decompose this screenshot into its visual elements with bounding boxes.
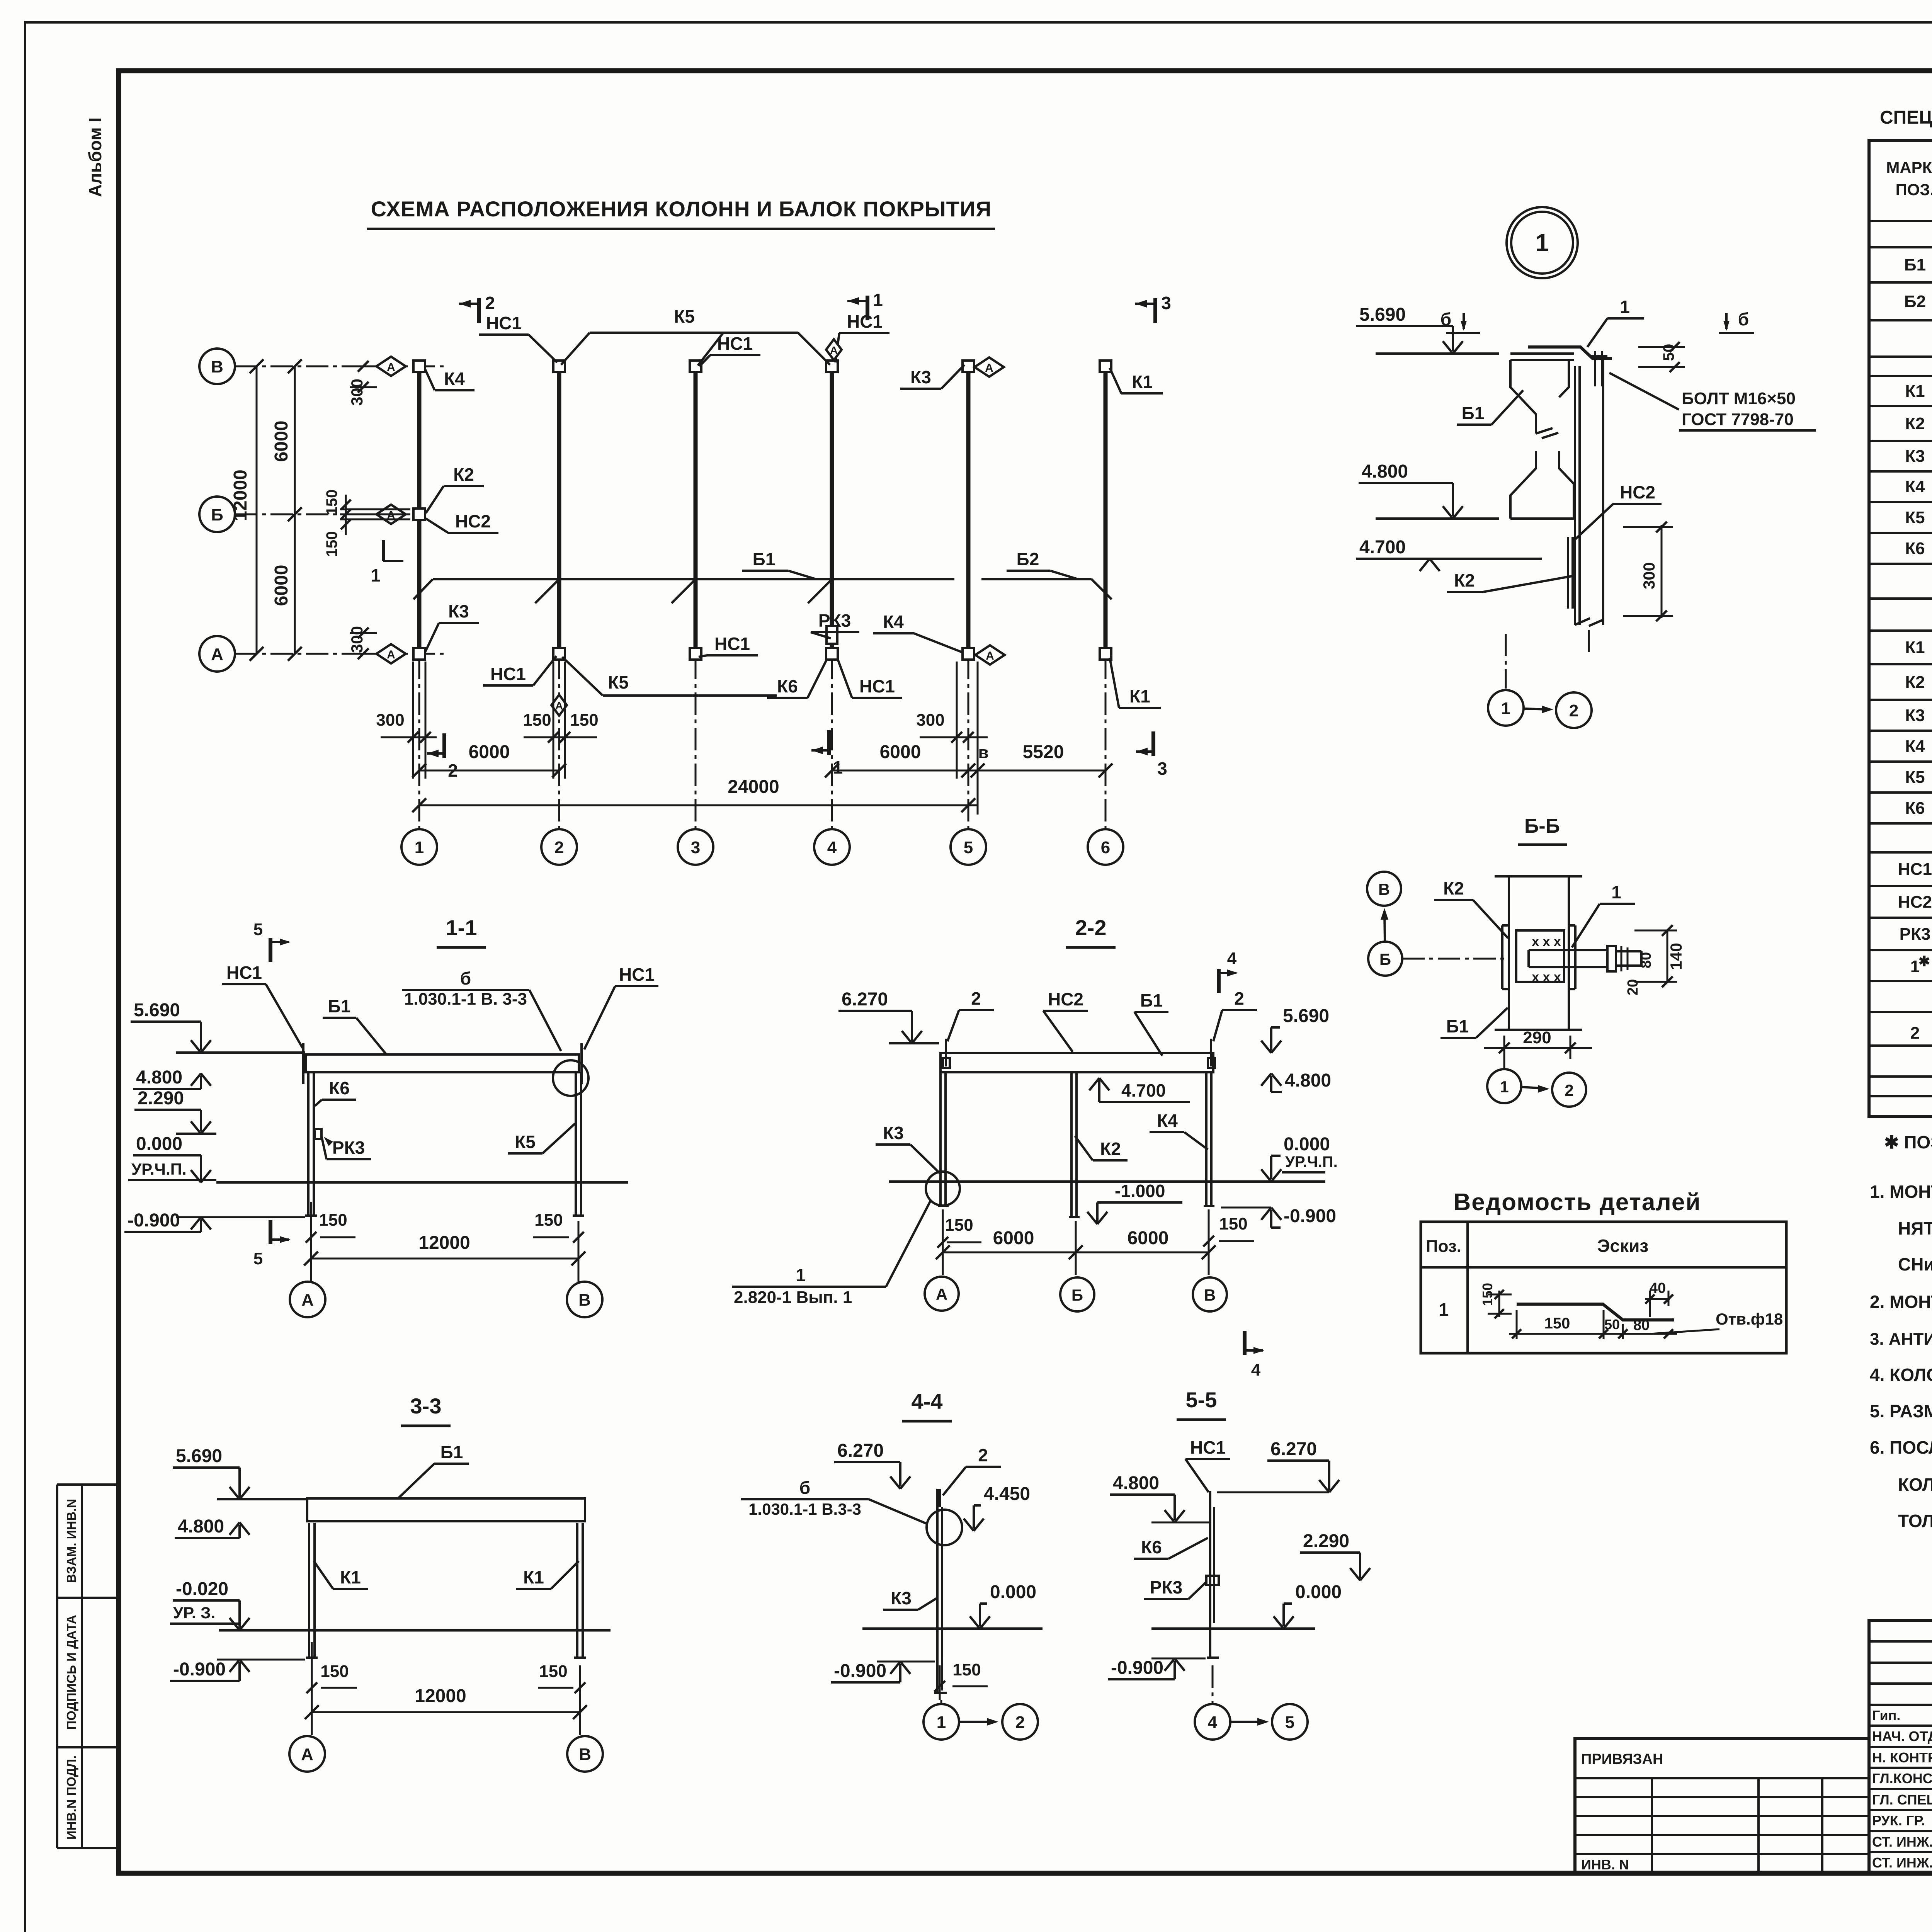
- svg-text:МАРКА: МАРКА: [1886, 158, 1932, 177]
- Б-Б dim 140: [1667, 930, 1668, 982]
- svg-text:3: 3: [1157, 759, 1167, 779]
- svg-text:300: 300: [376, 711, 404, 730]
- svg-text:150: 150: [319, 1211, 347, 1230]
- svg-text:К1: К1: [1132, 372, 1153, 392]
- 5-5 axis circles: [1212, 1665, 1214, 1704]
- svg-text:150: 150: [1219, 1214, 1247, 1233]
- beam line Б2: [981, 578, 1092, 580]
- svg-text:4. КОЛОННЫ МОНТИРОВАТЬ МАРК: 4. КОЛОННЫ МОНТИРОВАТЬ МАРКИРОВОЧНЫМ ЗНА…: [1870, 1365, 1932, 1385]
- marking diamond above col4: [826, 339, 842, 360]
- top nozzle chain K5: [590, 332, 798, 334]
- svg-text:Эскиз: Эскиз: [1597, 1236, 1648, 1256]
- detail 1 axis to view circles: [1505, 634, 1507, 689]
- svg-text:К5: К5: [1905, 768, 1925, 787]
- 5-5 ground line: [1151, 1628, 1315, 1630]
- 1-1 weld circle: [553, 1060, 588, 1096]
- svg-text:150: 150: [323, 531, 340, 557]
- svg-text:5. РАЗМЕР „в” СМ. ЧЕРТЕЖ: 5. РАЗМЕР „в” СМ. ЧЕРТЕЖ АР: [1870, 1401, 1932, 1421]
- svg-text:Б1: Б1: [1904, 255, 1926, 274]
- svg-text:К3: К3: [910, 367, 931, 387]
- bottom nozzle chain K5: [603, 694, 777, 697]
- svg-text:4.800: 4.800: [1362, 461, 1408, 482]
- svg-text:4.700: 4.700: [1121, 1080, 1166, 1100]
- svg-text:К5: К5: [674, 306, 695, 327]
- svg-text:5520: 5520: [1023, 742, 1064, 762]
- svg-text:-0.020: -0.020: [176, 1579, 228, 1599]
- svg-text:2: 2: [978, 1445, 988, 1465]
- vertical dims 6000/6000: [294, 366, 296, 654]
- svg-text:ГЛ. СПЕЦ: ГЛ. СПЕЦ: [1872, 1792, 1932, 1808]
- svg-text:2-2: 2-2: [1075, 915, 1107, 940]
- row axis circle Б: [199, 497, 235, 532]
- svg-text:Б1: Б1: [1446, 1016, 1469, 1036]
- svg-text:2: 2: [485, 293, 495, 313]
- svg-text:ВЗАМ. ИНВ.N: ВЗАМ. ИНВ.N: [64, 1499, 78, 1583]
- svg-text:5: 5: [1285, 1713, 1294, 1732]
- svg-text:СПЕЦИФИКАЦИЯ К СХЕМЕ РАСПОЛО: СПЕЦИФИКАЦИЯ К СХЕМЕ РАСПОЛОЖЕНИЯ КОЛОН …: [1880, 107, 1932, 128]
- Б-Б axis circle Б: [1368, 942, 1402, 976]
- svg-text:К1: К1: [1905, 638, 1925, 657]
- svg-text:4.800: 4.800: [178, 1516, 224, 1537]
- svg-text:4: 4: [1227, 949, 1237, 968]
- svg-text:2: 2: [971, 988, 981, 1009]
- svg-text:Поз.: Поз.: [1426, 1237, 1461, 1256]
- svg-text:1: 1: [937, 1713, 946, 1732]
- svg-text:40: 40: [1650, 1280, 1666, 1296]
- svg-text:4.800: 4.800: [136, 1067, 182, 1088]
- svg-text:x x x: x x x: [1532, 970, 1561, 985]
- marking diamond col5 bottom: [975, 645, 1005, 665]
- svg-text:К3: К3: [448, 601, 469, 621]
- svg-text:4.800: 4.800: [1113, 1473, 1159, 1493]
- 1-1 section flag 5 bottom: [269, 1220, 272, 1244]
- 1-1 left column: [307, 1072, 310, 1216]
- svg-text:1: 1: [1500, 1078, 1509, 1096]
- detail 1 column K2: [1574, 366, 1576, 625]
- Б-Б column body: [1508, 876, 1510, 1030]
- Б-Б dim 290: [1503, 1036, 1505, 1059]
- svg-text:0.000: 0.000: [990, 1582, 1036, 1602]
- section flag 3 top: [1153, 298, 1157, 323]
- 4-4 axis circles: [940, 1700, 942, 1704]
- svg-text:КОЛОННАМ ПО ВСЕЙ ДЛИНЕ И: КОЛОННАМ ПО ВСЕЙ ДЛИНЕ И ШИРИНЕ ЗАКЛАДНЫ…: [1898, 1475, 1932, 1495]
- 5-5 console РК3: [1206, 1576, 1219, 1585]
- 3-3 beam: [307, 1498, 585, 1521]
- svg-text:А: А: [986, 650, 994, 662]
- Б-Б view circles 1-2: [1487, 1069, 1521, 1103]
- svg-text:6000: 6000: [271, 421, 292, 462]
- svg-text:Отв.ф18: Отв.ф18: [1716, 1310, 1783, 1328]
- svg-text:5.690: 5.690: [176, 1446, 222, 1466]
- svg-text:Б1: Б1: [440, 1442, 463, 1462]
- svg-text:К1: К1: [1129, 686, 1150, 706]
- svg-text:А: А: [985, 362, 993, 374]
- svg-text:300: 300: [916, 711, 944, 730]
- svg-text:Ведомость деталей: Ведомость деталей: [1454, 1189, 1701, 1216]
- detail 1 bent plate pos.1: [1528, 347, 1612, 359]
- svg-text:А: А: [555, 700, 563, 712]
- svg-text:1: 1: [796, 1265, 806, 1285]
- 5-5 column: [1209, 1491, 1211, 1658]
- Б-Б bolt and nut: [1607, 946, 1616, 971]
- svg-text:б: б: [1738, 309, 1749, 329]
- parts list table: [1421, 1222, 1786, 1353]
- bottom extension lines: [412, 662, 414, 779]
- svg-text:3: 3: [1161, 293, 1171, 313]
- svg-text:4: 4: [1251, 1361, 1261, 1379]
- svg-text:РК3: РК3: [332, 1138, 365, 1158]
- svg-text:НС2: НС2: [1048, 989, 1083, 1009]
- svg-text:5.690: 5.690: [134, 1000, 180, 1020]
- svg-text:1: 1: [371, 565, 381, 585]
- svg-text:300: 300: [348, 379, 366, 406]
- svg-text:Гип.: Гип.: [1872, 1708, 1900, 1723]
- svg-text:К4: К4: [1905, 737, 1925, 756]
- svg-text:ИНВ. N: ИНВ. N: [1581, 1857, 1629, 1872]
- Б-Б embedded plate pos.1: [1529, 949, 1607, 951]
- dim line 6000 col1-col2: [419, 770, 559, 772]
- svg-text:ПОЗ.: ПОЗ.: [1896, 180, 1932, 199]
- svg-text:5: 5: [964, 838, 973, 857]
- svg-text:К1: К1: [523, 1567, 544, 1587]
- svg-text:А: А: [301, 1291, 314, 1310]
- dim line 24000: [419, 804, 978, 806]
- svg-text:6000: 6000: [271, 565, 292, 606]
- svg-text:Б: Б: [1379, 950, 1391, 968]
- 3-3 dim 12000: [312, 1711, 580, 1713]
- svg-text:-0.900: -0.900: [128, 1210, 180, 1231]
- svg-text:6000: 6000: [1128, 1228, 1169, 1248]
- svg-text:А: А: [211, 645, 223, 664]
- 4-4 weld circle: [927, 1510, 962, 1545]
- svg-text:НС2: НС2: [455, 511, 491, 531]
- svg-text:4: 4: [827, 838, 837, 857]
- svg-text:2. МОНТАЖНУЮ СВАРКУ ВЫПОЛНЯ: 2. МОНТАЖНУЮ СВАРКУ ВЫПОЛНЯТЬ ЭЛЕКТРОДАМ…: [1870, 1292, 1932, 1312]
- svg-text:6. ПОСЛЕ ОКОНЧАТЕЛЬНОЙ ВЫВЕ: 6. ПОСЛЕ ОКОНЧАТЕЛЬНОЙ ВЫВЕРКИ БАЛКИ ПОК…: [1870, 1437, 1932, 1458]
- svg-text:6000: 6000: [993, 1228, 1034, 1248]
- svg-text:1: 1: [415, 838, 424, 857]
- parts list sketch: [1517, 1304, 1674, 1320]
- svg-text:К2: К2: [1905, 414, 1925, 433]
- svg-text:ПОДПИСЬ И ДАТА: ПОДПИСЬ И ДАТА: [64, 1615, 78, 1730]
- svg-text:А: А: [387, 361, 395, 374]
- svg-text:1: 1: [1611, 882, 1621, 902]
- svg-text:УР. З.: УР. З.: [173, 1604, 215, 1622]
- svg-text:б: б: [460, 968, 471, 988]
- svg-text:БОЛТ М16×50: БОЛТ М16×50: [1682, 389, 1796, 408]
- detail 1 beam Б1 profile: [1510, 352, 1574, 355]
- svg-text:-0.900: -0.900: [834, 1661, 886, 1681]
- svg-text:300: 300: [1640, 562, 1658, 589]
- 2-2 beam: [940, 1053, 1213, 1072]
- 2-2 column Б: [1070, 1072, 1073, 1217]
- 2-2 section flag 4 bottom: [1243, 1331, 1247, 1355]
- 2-2 nozzle stubs: [945, 1039, 947, 1066]
- svg-text:В: В: [211, 357, 223, 376]
- svg-text:РК3: РК3: [1150, 1577, 1182, 1597]
- svg-text:1: 1: [873, 290, 883, 310]
- svg-text:ПРИВЯЗАН: ПРИВЯЗАН: [1581, 1751, 1663, 1767]
- Б-Б beam cross-section: [1516, 930, 1564, 982]
- svg-text:Б-Б: Б-Б: [1524, 815, 1560, 837]
- svg-text:5.690: 5.690: [1283, 1006, 1329, 1026]
- row axis circle В: [199, 349, 235, 384]
- svg-text:-1.000: -1.000: [1115, 1181, 1165, 1201]
- Б-Б axis line: [1402, 958, 1507, 960]
- svg-text:К3: К3: [891, 1588, 912, 1608]
- НС2 connection lines at col1-Б: [340, 509, 410, 510]
- svg-text:4-4: 4-4: [912, 1389, 943, 1413]
- svg-text:5.690: 5.690: [1359, 304, 1406, 325]
- svg-text:НС1: НС1: [486, 313, 522, 333]
- svg-text:Б1: Б1: [328, 996, 351, 1016]
- 1-1 right column: [575, 1072, 577, 1216]
- svg-text:В: В: [578, 1291, 591, 1310]
- 1-1 section flag 5 top: [269, 938, 272, 962]
- marking diamond below col2: [551, 695, 567, 716]
- Б-Б side plates: [1501, 925, 1503, 989]
- svg-text:6.270: 6.270: [842, 989, 888, 1010]
- 1-1 ground line: [216, 1181, 628, 1184]
- svg-text:Б2: Б2: [1904, 292, 1926, 311]
- svg-text:3. АНТИКОРРОЗИЙНУЮ ЗАЩИТУ З: 3. АНТИКОРРОЗИЙНУЮ ЗАЩИТУ ЗАКЛАДНЫХ ДЕТА…: [1870, 1329, 1932, 1349]
- spec table grid: [1869, 140, 1932, 1117]
- svg-text:24000: 24000: [728, 777, 779, 797]
- svg-text:К1: К1: [1905, 382, 1925, 401]
- svg-text:20: 20: [1625, 979, 1641, 995]
- 2-2 ground line: [889, 1180, 1325, 1183]
- svg-text:К6: К6: [329, 1078, 350, 1098]
- 2-2 section flag 4 top: [1217, 969, 1221, 993]
- svg-text:300: 300: [348, 626, 366, 653]
- svg-text:К4: К4: [444, 369, 465, 389]
- svg-text:1: 1: [1501, 699, 1510, 718]
- 1-1 right nozzle plate: [580, 1043, 583, 1084]
- marking diamonds col1: [376, 357, 406, 376]
- svg-text:НС1: НС1: [1898, 860, 1932, 879]
- svg-text:290: 290: [1523, 1028, 1551, 1047]
- svg-text:150: 150: [323, 490, 340, 515]
- svg-text:1: 1: [1439, 1299, 1449, 1320]
- marking diamond col5 top: [975, 357, 1004, 377]
- svg-text:СТ. ИНЖ.: СТ. ИНЖ.: [1872, 1834, 1932, 1850]
- svg-text:2: 2: [1565, 1081, 1573, 1099]
- title block left attach table: [1575, 1738, 1869, 1873]
- svg-text:150: 150: [534, 1211, 563, 1230]
- svg-text:В: В: [1378, 880, 1390, 898]
- detail view circles 1-2: [1488, 690, 1524, 726]
- title block signature table: [1869, 1621, 1932, 1873]
- svg-text:Б1: Б1: [753, 549, 776, 569]
- svg-text:СТ. ИНЖ.: СТ. ИНЖ.: [1872, 1855, 1932, 1871]
- svg-text:0.000: 0.000: [1284, 1134, 1330, 1155]
- svg-text:УР.Ч.П.: УР.Ч.П.: [131, 1160, 187, 1178]
- column axis extension lines: [418, 657, 420, 829]
- left margin attribute boxes: [56, 1485, 58, 1848]
- svg-text:К6: К6: [1905, 799, 1925, 818]
- svg-text:2: 2: [554, 838, 564, 857]
- svg-text:3: 3: [691, 838, 700, 857]
- 3-3 columns: [308, 1523, 310, 1658]
- svg-text:СНиП Ш-16-80, А ТАКЖЕ ЧЕРТЕЖА: СНиП Ш-16-80, А ТАКЖЕ ЧЕРТЕЖАМИ НАСТОЯЩЕ…: [1898, 1254, 1932, 1274]
- svg-text:80: 80: [1638, 952, 1654, 968]
- 3-3 ground line: [219, 1629, 611, 1632]
- column axis circles 1-6: [401, 829, 437, 865]
- svg-text:НС1: НС1: [490, 664, 526, 684]
- svg-text:К5: К5: [1905, 508, 1925, 527]
- svg-text:-0.900: -0.900: [1284, 1206, 1336, 1226]
- svg-text:К4: К4: [1157, 1111, 1178, 1131]
- 2-2 column А: [939, 1072, 942, 1206]
- svg-text:К3: К3: [1905, 706, 1925, 725]
- 2-2 column В: [1205, 1072, 1207, 1206]
- svg-text:2: 2: [1015, 1713, 1025, 1732]
- svg-text:✱ ПОЗИЦИЮ 1 -СМ. ВЕДОМОСТЬ ДЕ: ✱ ПОЗИЦИЮ 1 -СМ. ВЕДОМОСТЬ ДЕТАЛЕЙ.: [1884, 1132, 1932, 1152]
- svg-text:УР.Ч.П.: УР.Ч.П.: [1285, 1153, 1338, 1170]
- svg-text:5: 5: [253, 1249, 263, 1268]
- 1-1 beam: [306, 1054, 579, 1072]
- svg-text:НС1: НС1: [714, 634, 750, 654]
- row axis circle А: [199, 636, 235, 672]
- svg-text:2.290: 2.290: [1303, 1531, 1349, 1551]
- svg-text:К2: К2: [453, 464, 474, 485]
- beam line Б1: [433, 578, 954, 580]
- svg-text:6.270: 6.270: [1270, 1439, 1317, 1459]
- svg-text:-0.900: -0.900: [173, 1659, 226, 1680]
- svg-text:150: 150: [952, 1660, 981, 1679]
- svg-text:К6: К6: [1141, 1537, 1162, 1557]
- svg-text:✱: ✱: [1918, 953, 1930, 969]
- svg-text:К2: К2: [1905, 673, 1925, 692]
- svg-text:б: б: [1440, 309, 1451, 329]
- svg-text:1.030.1-1 В.3-3: 1.030.1-1 В.3-3: [748, 1500, 861, 1518]
- svg-text:4.450: 4.450: [984, 1484, 1030, 1504]
- svg-text:Б: Б: [211, 505, 223, 524]
- svg-text:12000: 12000: [415, 1686, 466, 1706]
- svg-text:2: 2: [1234, 988, 1244, 1009]
- svg-text:НАЧ. ОТД.: НАЧ. ОТД.: [1872, 1728, 1932, 1744]
- 3-3 axis circles: [311, 1724, 313, 1735]
- svg-text:В: В: [1204, 1286, 1216, 1304]
- svg-text:А: А: [387, 648, 395, 661]
- section flag 2 top: [477, 298, 481, 323]
- svg-text:0.000: 0.000: [1295, 1582, 1342, 1602]
- detail 1 column break: [1575, 618, 1590, 625]
- svg-text:К2: К2: [1100, 1139, 1121, 1159]
- svg-text:1-1: 1-1: [446, 915, 477, 940]
- svg-text:-0.900: -0.900: [1111, 1658, 1163, 1678]
- svg-text:К5: К5: [515, 1132, 536, 1152]
- svg-text:НС1: НС1: [1190, 1437, 1226, 1458]
- svg-text:НЯТЬ В СООТВЕТСТВИИ С УКАЗ: НЯТЬ В СООТВЕТСТВИИ С УКАЗАНИЯМИ СЕРИЙ 1…: [1898, 1218, 1932, 1238]
- svg-text:1: 1: [1535, 229, 1549, 257]
- svg-text:К6: К6: [777, 676, 798, 696]
- svg-text:А: А: [301, 1745, 313, 1764]
- svg-text:К4: К4: [1905, 477, 1925, 496]
- svg-text:РК3: РК3: [1900, 925, 1931, 944]
- Б-Б axis circle В: [1367, 872, 1401, 906]
- svg-text:150: 150: [945, 1216, 973, 1235]
- svg-text:150: 150: [570, 711, 598, 730]
- svg-text:б: б: [799, 1478, 810, 1498]
- svg-text:5: 5: [253, 920, 263, 939]
- section flag 3 bottom: [1151, 731, 1155, 756]
- svg-text:в: в: [978, 743, 988, 762]
- beam support ticks: [535, 581, 558, 603]
- svg-text:1.030.1-1 В. 3-3: 1.030.1-1 В. 3-3: [404, 990, 527, 1009]
- svg-text:СХЕМА РАСПОЛОЖЕНИЯ КОЛОНН И БА: СХЕМА РАСПОЛОЖЕНИЯ КОЛОНН И БАЛОК ПОКРЫТ…: [371, 197, 992, 221]
- svg-text:К2: К2: [1454, 570, 1475, 590]
- column node squares: [413, 361, 425, 372]
- svg-text:К3: К3: [883, 1123, 904, 1143]
- row axis lines: [235, 366, 444, 367]
- svg-text:НС1: НС1: [226, 963, 262, 983]
- 1-1 dim 12000: [311, 1258, 578, 1260]
- svg-text:5-5: 5-5: [1186, 1388, 1217, 1412]
- svg-text:НС1: НС1: [859, 676, 895, 696]
- svg-text:К6: К6: [1905, 539, 1925, 558]
- svg-text:3-3: 3-3: [410, 1394, 442, 1418]
- svg-text:Н. КОНТР.: Н. КОНТР.: [1872, 1750, 1932, 1765]
- svg-text:ГЛ.КОНСТ.: ГЛ.КОНСТ.: [1872, 1770, 1932, 1786]
- svg-text:150: 150: [320, 1662, 349, 1681]
- svg-text:А: А: [936, 1285, 947, 1303]
- svg-text:Б1: Б1: [1140, 990, 1163, 1010]
- 2-2 axis circles: [942, 1265, 944, 1275]
- svg-text:4: 4: [1208, 1713, 1218, 1732]
- 1-1 axis circles: [310, 1271, 312, 1282]
- svg-text:6000: 6000: [469, 742, 510, 762]
- 2-2 weld circle: [926, 1172, 960, 1206]
- 4-4 ground line: [862, 1628, 1043, 1630]
- dim 300 detail: [1661, 525, 1663, 618]
- section flag 1 top: [866, 296, 869, 320]
- 3-3 left elevation line: [217, 1498, 307, 1500]
- svg-text:2.820-1 Вып. 1: 2.820-1 Вып. 1: [734, 1288, 852, 1307]
- svg-text:150: 150: [539, 1662, 567, 1681]
- svg-text:x x x: x x x: [1532, 934, 1561, 949]
- svg-text:6.270: 6.270: [837, 1440, 884, 1461]
- svg-text:НС1: НС1: [847, 311, 883, 332]
- svg-text:А: А: [830, 344, 838, 356]
- svg-text:ТОЛЩИНЕ ЗАКЛАДНОЙ ДЕТАЛИ БА: ТОЛЩИНЕ ЗАКЛАДНОЙ ДЕТАЛИ БАЛКИ.: [1898, 1511, 1932, 1531]
- svg-text:К3: К3: [1905, 447, 1925, 466]
- svg-text:Б: Б: [1071, 1286, 1083, 1304]
- svg-text:Б1: Б1: [1462, 403, 1485, 423]
- svg-text:Б2: Б2: [1017, 549, 1039, 569]
- columns (plan): [417, 368, 422, 652]
- svg-text:6000: 6000: [880, 742, 921, 762]
- svg-text:2.290: 2.290: [138, 1088, 184, 1109]
- svg-text:1. МОНТАЖ, КРЕПЛЕНИЕ И ОМОНО: 1. МОНТАЖ, КРЕПЛЕНИЕ И ОМОНОЛИЧИВАНИЕ СБ…: [1870, 1182, 1932, 1202]
- svg-text:В: В: [579, 1745, 591, 1764]
- svg-text:50: 50: [1604, 1316, 1620, 1332]
- svg-text:4.800: 4.800: [1285, 1070, 1331, 1091]
- svg-text:Альбом I: Альбом I: [85, 117, 105, 197]
- 1-1 console РК3 mark: [315, 1129, 321, 1139]
- svg-text:0.000: 0.000: [136, 1134, 182, 1154]
- svg-text:2: 2: [1569, 701, 1578, 720]
- svg-text:80: 80: [1633, 1317, 1650, 1333]
- svg-text:К5: К5: [608, 672, 629, 692]
- svg-text:4.700: 4.700: [1359, 537, 1406, 558]
- svg-text:150: 150: [523, 711, 551, 730]
- detail 1 HC2 plate: [1567, 537, 1569, 609]
- sketch dims 150 50 80: [1516, 1310, 1518, 1339]
- svg-text:К2: К2: [1443, 878, 1464, 898]
- svg-text:150: 150: [1544, 1315, 1570, 1332]
- svg-text:6: 6: [1101, 838, 1110, 857]
